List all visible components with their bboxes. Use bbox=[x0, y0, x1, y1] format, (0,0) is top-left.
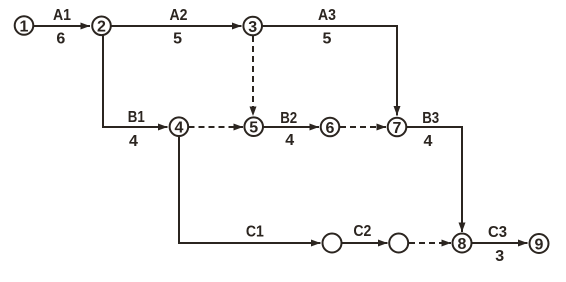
svg-text:9: 9 bbox=[535, 236, 544, 253]
svg-text:6: 6 bbox=[326, 120, 335, 137]
svg-text:7: 7 bbox=[393, 120, 402, 137]
svg-text:4: 4 bbox=[129, 133, 138, 150]
svg-text:C2: C2 bbox=[353, 223, 371, 240]
svg-text:4: 4 bbox=[285, 132, 294, 149]
svg-text:5: 5 bbox=[323, 31, 332, 48]
svg-text:3: 3 bbox=[248, 19, 257, 36]
svg-text:A2: A2 bbox=[170, 7, 188, 24]
svg-text:B3: B3 bbox=[422, 110, 439, 127]
svg-text:8: 8 bbox=[458, 236, 467, 253]
svg-text:5: 5 bbox=[249, 120, 258, 137]
svg-text:6: 6 bbox=[56, 31, 65, 48]
svg-text:B2: B2 bbox=[280, 110, 297, 127]
svg-text:4: 4 bbox=[174, 120, 183, 137]
svg-text:B1: B1 bbox=[128, 109, 145, 126]
svg-text:C3: C3 bbox=[488, 224, 507, 241]
svg-text:A3: A3 bbox=[318, 7, 336, 24]
svg-text:C1: C1 bbox=[246, 224, 264, 241]
svg-text:A1: A1 bbox=[53, 7, 71, 24]
svg-text:4: 4 bbox=[424, 133, 433, 150]
svg-text:3: 3 bbox=[495, 248, 504, 265]
svg-text:1: 1 bbox=[20, 18, 29, 35]
svg-text:2: 2 bbox=[97, 19, 106, 36]
svg-text:5: 5 bbox=[173, 31, 182, 48]
